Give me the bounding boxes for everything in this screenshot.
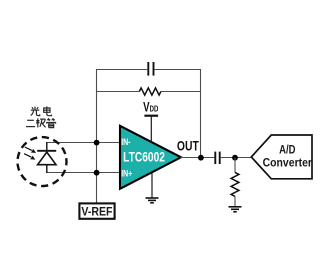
light arrow 1 bbox=[25, 147, 36, 153]
wire: right feedback vertical (to OUT) bbox=[200, 69, 202, 158]
svg-text:IN+: IN+ bbox=[121, 168, 132, 178]
light arrow 2 bbox=[24, 154, 35, 160]
label 极 (pole) bbox=[36, 118, 45, 127]
wire: feedback top rail left segment bbox=[96, 69, 147, 71]
photodiode D1 cathode bar bbox=[37, 150, 56, 152]
photodiode D1 cathode stub bbox=[46, 142, 48, 151]
label 管 (tube) bbox=[47, 118, 56, 127]
wire: feedback top rail right segment bbox=[155, 69, 202, 71]
node: IN- junction dot bbox=[94, 140, 100, 146]
wire: IN- node to op-amp bbox=[97, 142, 121, 144]
photodiode D1 anode stub bbox=[46, 165, 48, 173]
resistor R2 (load) bbox=[231, 172, 239, 196]
svg-text:A/D: A/D bbox=[279, 144, 296, 157]
svg-text:V-REF: V-REF bbox=[81, 206, 112, 219]
wire: feedback resistor rail right segment bbox=[161, 91, 201, 93]
photodiode D1 dashed circle bbox=[14, 134, 69, 189]
wire: photodiode anode to IN- node bbox=[46, 142, 97, 144]
svg-text:IN-: IN- bbox=[121, 137, 131, 147]
svg-text:DD: DD bbox=[150, 104, 159, 114]
V-REF box bbox=[79, 203, 114, 218]
A/D converter block bbox=[251, 135, 312, 179]
wire: feedback resistor rail left segment bbox=[96, 91, 139, 93]
wire: resistor to ground bbox=[234, 196, 236, 206]
capacitor C2 (coupling) bbox=[215, 152, 219, 164]
label 光 (photo) bbox=[31, 107, 40, 116]
node: IN+ junction dot bbox=[94, 170, 100, 176]
wire: op-amp output to coupling cap bbox=[180, 157, 214, 159]
node: load junction dot bbox=[232, 155, 238, 161]
svg-text:V: V bbox=[143, 99, 149, 115]
op-amp U1 LTC6002 triangle bbox=[120, 126, 181, 189]
ground (op-amp) bbox=[146, 198, 159, 203]
wire: photodiode cathode to IN+ node bbox=[46, 172, 97, 174]
wire: load junction down to resistor bbox=[234, 158, 236, 173]
label 电 (electric) bbox=[44, 106, 52, 115]
wire: VDD stub to op-amp top bbox=[150, 116, 152, 143]
ground (load resistor) bbox=[229, 207, 242, 212]
wire: left feedback vertical (to IN- and V-REF) bbox=[96, 69, 98, 204]
node: OUT junction dot bbox=[198, 155, 204, 161]
wire: coupling cap to A/D converter bbox=[221, 157, 252, 159]
label 二 (two) bbox=[26, 120, 35, 126]
svg-text:LTC6002: LTC6002 bbox=[123, 149, 165, 165]
VDD supply bar bbox=[144, 115, 158, 117]
wire: op-amp ground stub bbox=[151, 173, 153, 198]
photodiode D1 triangle bbox=[38, 152, 56, 165]
svg-text:OUT: OUT bbox=[177, 138, 199, 154]
resistor RF (feedback) bbox=[139, 88, 161, 95]
wire: IN+ node to op-amp bbox=[97, 172, 121, 174]
svg-text:Converter: Converter bbox=[263, 157, 313, 170]
capacitor CF (feedback) bbox=[148, 62, 153, 76]
